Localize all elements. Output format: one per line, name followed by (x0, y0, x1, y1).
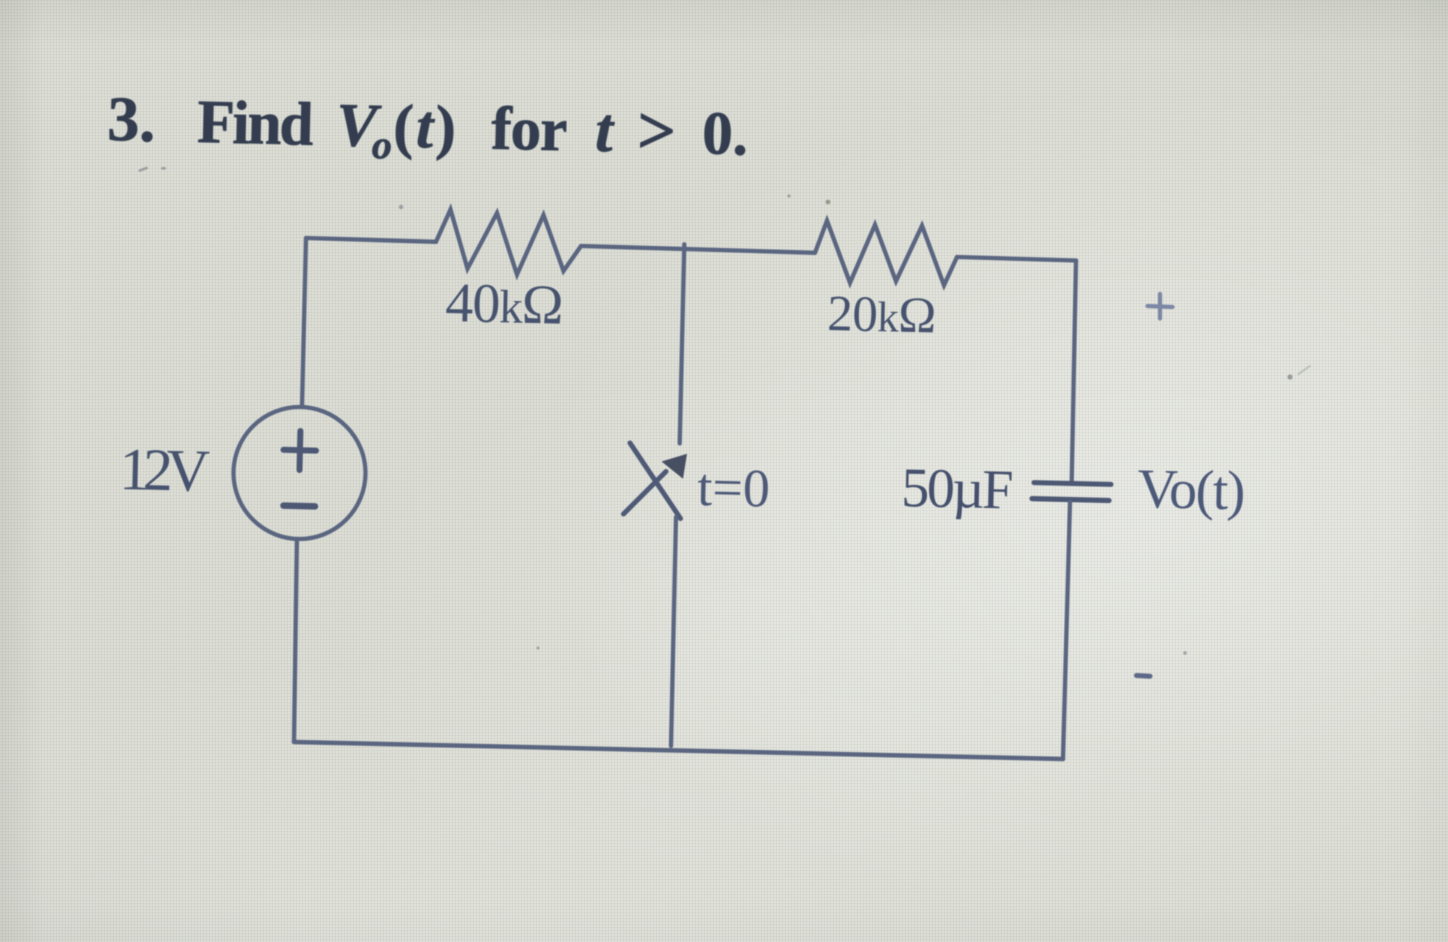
plus polarity mark for Vo(t) (1148, 294, 1173, 319)
svg-text:40kΩ: 40kΩ (445, 272, 564, 337)
wire: left vertical segment (source V1 down to bottom-left corner) (294, 539, 297, 742)
wire: top middle horizontal segment (R1 to node A / R2) (581, 246, 815, 253)
capacitor C1 top plate (1034, 483, 1111, 485)
svg-text:t=0: t=0 (697, 457, 771, 519)
capacitor C1 bottom plate (1032, 499, 1109, 501)
svg-text:50µF: 50µF (901, 457, 1013, 521)
resistor R2 20kOhm zigzag (815, 221, 957, 286)
svg-text:Vo(t): Vo(t) (1137, 458, 1245, 522)
svg-text:(t): (t) (393, 93, 460, 161)
minus polarity mark for Vo(t) (1137, 673, 1151, 679)
svg-text:20kΩ: 20kΩ (827, 286, 937, 344)
wire: right vertical segment (capacitor C1 down to bottom-right corner) (1063, 502, 1070, 759)
wire: middle vertical segment (switch S1 down to bottom wire) (671, 517, 676, 746)
switch S1 arrowhead (662, 454, 688, 479)
svg-text:Find: Find (197, 89, 315, 159)
svg-text:o: o (371, 122, 392, 167)
plus polarity mark inside source (284, 431, 317, 470)
wire: bottom horizontal segment (294, 742, 1063, 759)
svg-text:t: t (595, 95, 617, 165)
voltage source V1 circle (234, 407, 366, 539)
svg-text:for: for (491, 96, 567, 165)
resistor R1 40kOhm zigzag (436, 210, 581, 275)
svg-text:>: > (637, 92, 677, 169)
switch S1 blade (upper-left to lower-right stroke of X) (630, 443, 681, 519)
minus polarity mark inside source (284, 502, 316, 509)
wire: middle vertical segment (node A down to switch S1) (680, 244, 685, 443)
wire: top-right horizontal segment (R2 to top-right corner) (957, 257, 1076, 261)
title: 3. Find Vo(t) for t > 0. (107, 80, 749, 176)
svg-text:12V: 12V (119, 436, 210, 504)
wire: right vertical segment (top-right corner down to capacitor C1) (1072, 261, 1076, 483)
wire: top-left horizontal segment (top-left corner to R1) (306, 238, 436, 242)
switch S1 actuation arrow shaft (624, 472, 667, 515)
svg-text:0.: 0. (702, 100, 749, 168)
svg-text:3.: 3. (107, 83, 157, 155)
wire: left vertical segment (top-left corner down to source V1) (302, 238, 306, 407)
